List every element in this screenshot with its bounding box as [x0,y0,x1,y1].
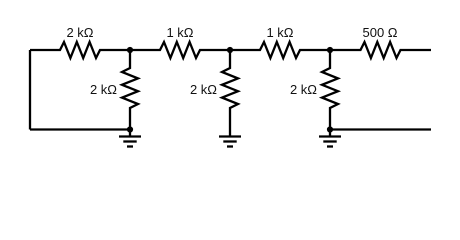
node B junction dot [227,47,233,53]
svg-text:2 kΩ: 2 kΩ [190,82,217,97]
svg-text:500 Ω: 500 Ω [362,25,397,40]
node A junction dot [127,47,133,53]
ground 2 [219,130,241,147]
node C junction dot [327,47,333,53]
svg-text:1 kΩ: 1 kΩ [166,25,193,40]
wire left vertical [29,50,31,130]
resistor R5 2 kOhm shunt [122,50,138,130]
svg-text:2 kΩ: 2 kΩ [66,25,93,40]
resistor R7 2 kOhm shunt [322,50,338,130]
svg-text:2 kΩ: 2 kΩ [290,82,317,97]
resistor R2 1 kOhm series [130,42,230,58]
wire bottom left [30,128,130,130]
resistor R1 2 kOhm series [30,42,130,58]
ground 1 [119,130,141,147]
resistor R3 1 kOhm series [230,42,330,58]
wire bottom right [330,128,431,130]
resistor R4 500 Ohm series [330,42,431,58]
ground 3 [319,130,341,147]
node E junction dot [327,126,333,132]
svg-text:2 kΩ: 2 kΩ [90,82,117,97]
svg-text:1 kΩ: 1 kΩ [266,25,293,40]
resistor R6 2 kOhm shunt [222,50,238,130]
node D junction dot [127,126,133,132]
